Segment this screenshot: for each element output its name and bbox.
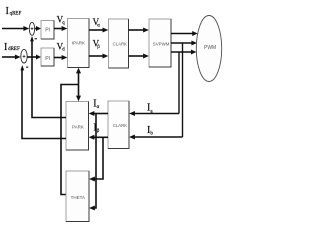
svg-text:I: I bbox=[6, 6, 9, 17]
wire CLARK2 to PARK (Ibeta) bbox=[89, 135, 108, 140]
svg-text:d: d bbox=[62, 47, 65, 52]
wire Iqref input to summer S1 bbox=[2, 26, 29, 31]
node I_dREF input label bbox=[4, 42, 20, 53]
node I_qREF input label bbox=[6, 6, 22, 17]
summing junction S2 (d axis) bbox=[21, 49, 27, 63]
svg-text:α: α bbox=[97, 23, 100, 28]
svg-text:β: β bbox=[97, 129, 100, 134]
wire Ibeta branch down to THETA top input bbox=[89, 137, 103, 182]
svg-text:α: α bbox=[97, 105, 100, 110]
wire PARK Iq feedback to summer S1 bbox=[30, 36, 66, 118]
wire summer S1 to PI1 bbox=[35, 26, 42, 31]
wire PI2 to IPARK (Vd) bbox=[54, 55, 67, 60]
block THETA U6 bbox=[66, 171, 89, 222]
node Vd label bbox=[57, 42, 66, 53]
svg-text:IPARK: IPARK bbox=[72, 41, 85, 46]
PWM motor ellipse M1 bbox=[196, 16, 221, 82]
node Ia label bbox=[147, 103, 153, 115]
svg-text:PWM: PWM bbox=[204, 45, 216, 51]
node Ib label bbox=[147, 125, 153, 137]
svg-text:PI: PI bbox=[45, 56, 50, 62]
wire Ia into CLARK2 bbox=[129, 111, 179, 116]
svg-text:CLARK: CLARK bbox=[113, 123, 127, 128]
wire theta vertical IPARK-PARK bbox=[76, 68, 81, 102]
block SVPWM U3 bbox=[149, 19, 171, 67]
wire SVPWM to PWM phase C bbox=[171, 50, 197, 55]
block CLARK U2 (top) bbox=[109, 19, 129, 68]
wire IPARK to CLARK1 (Valpha) bbox=[89, 28, 108, 33]
node Vbeta label bbox=[93, 38, 101, 50]
wire CLARK1 to SVPWM row2 bbox=[129, 54, 149, 59]
wire Ib into CLARK2 bbox=[129, 135, 182, 140]
PI controller block PI1 bbox=[41, 21, 54, 40]
wire PARK Id feedback to summer S2 bbox=[20, 65, 66, 139]
svg-text:CLARK: CLARK bbox=[113, 42, 127, 47]
node Ialpha label bbox=[93, 99, 99, 111]
wire CLARK2 to PARK (Ialpha) bbox=[89, 111, 108, 116]
svg-text:SVPWM: SVPWM bbox=[153, 42, 170, 47]
svg-text:PI: PI bbox=[45, 28, 50, 34]
svg-text:I: I bbox=[4, 42, 7, 53]
svg-text:b: b bbox=[150, 132, 153, 137]
minus sign at S1 feedback bbox=[35, 38, 37, 39]
wire PI1 to IPARK (Vq) bbox=[54, 26, 67, 31]
wire SVPWM to PWM phase B bbox=[171, 41, 197, 46]
summing junction S1 (q axis) bbox=[29, 22, 34, 35]
wire theta branch to THETA block bbox=[61, 85, 79, 195]
block CLARK U4 (feedback) bbox=[108, 101, 129, 149]
wire tap Ia vertical from phase C line bbox=[178, 52, 180, 114]
block PARK U5 bbox=[66, 102, 89, 151]
svg-text:q: q bbox=[62, 21, 65, 26]
block IPARK U1 bbox=[68, 19, 90, 68]
wire summer S2 to PI2 bbox=[27, 55, 41, 60]
svg-text:qREF: qREF bbox=[10, 11, 22, 16]
svg-text:dREF: dREF bbox=[8, 47, 20, 52]
wire SVPWM to PWM phase A bbox=[171, 31, 198, 36]
wire Idref input to summer S2 bbox=[2, 55, 21, 60]
node Valpha label bbox=[93, 17, 101, 28]
node Ibeta label bbox=[93, 122, 99, 134]
svg-text:THETA: THETA bbox=[71, 195, 85, 200]
PI controller block PI2 bbox=[41, 48, 54, 66]
svg-text:β: β bbox=[97, 45, 100, 50]
wire CLARK1 to SVPWM row1 bbox=[129, 28, 149, 33]
minus sign at S2 feedback bbox=[26, 67, 28, 68]
node Vq label bbox=[57, 14, 66, 26]
wire IPARK to CLARK1 (Vbeta) bbox=[89, 54, 108, 59]
wire tap Ib vertical from phase B line bbox=[182, 43, 184, 137]
wire Ialpha branch down to THETA bottom input bbox=[89, 114, 96, 211]
svg-text:PARK: PARK bbox=[72, 125, 84, 130]
